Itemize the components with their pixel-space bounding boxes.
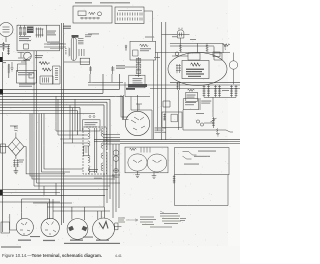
svg-text:Figure 10.14.—Tone terminal, s: Figure 10.14.—Tone terminal, schematic d… xyxy=(2,253,102,258)
svg-text:4-41: 4-41 xyxy=(115,254,122,258)
